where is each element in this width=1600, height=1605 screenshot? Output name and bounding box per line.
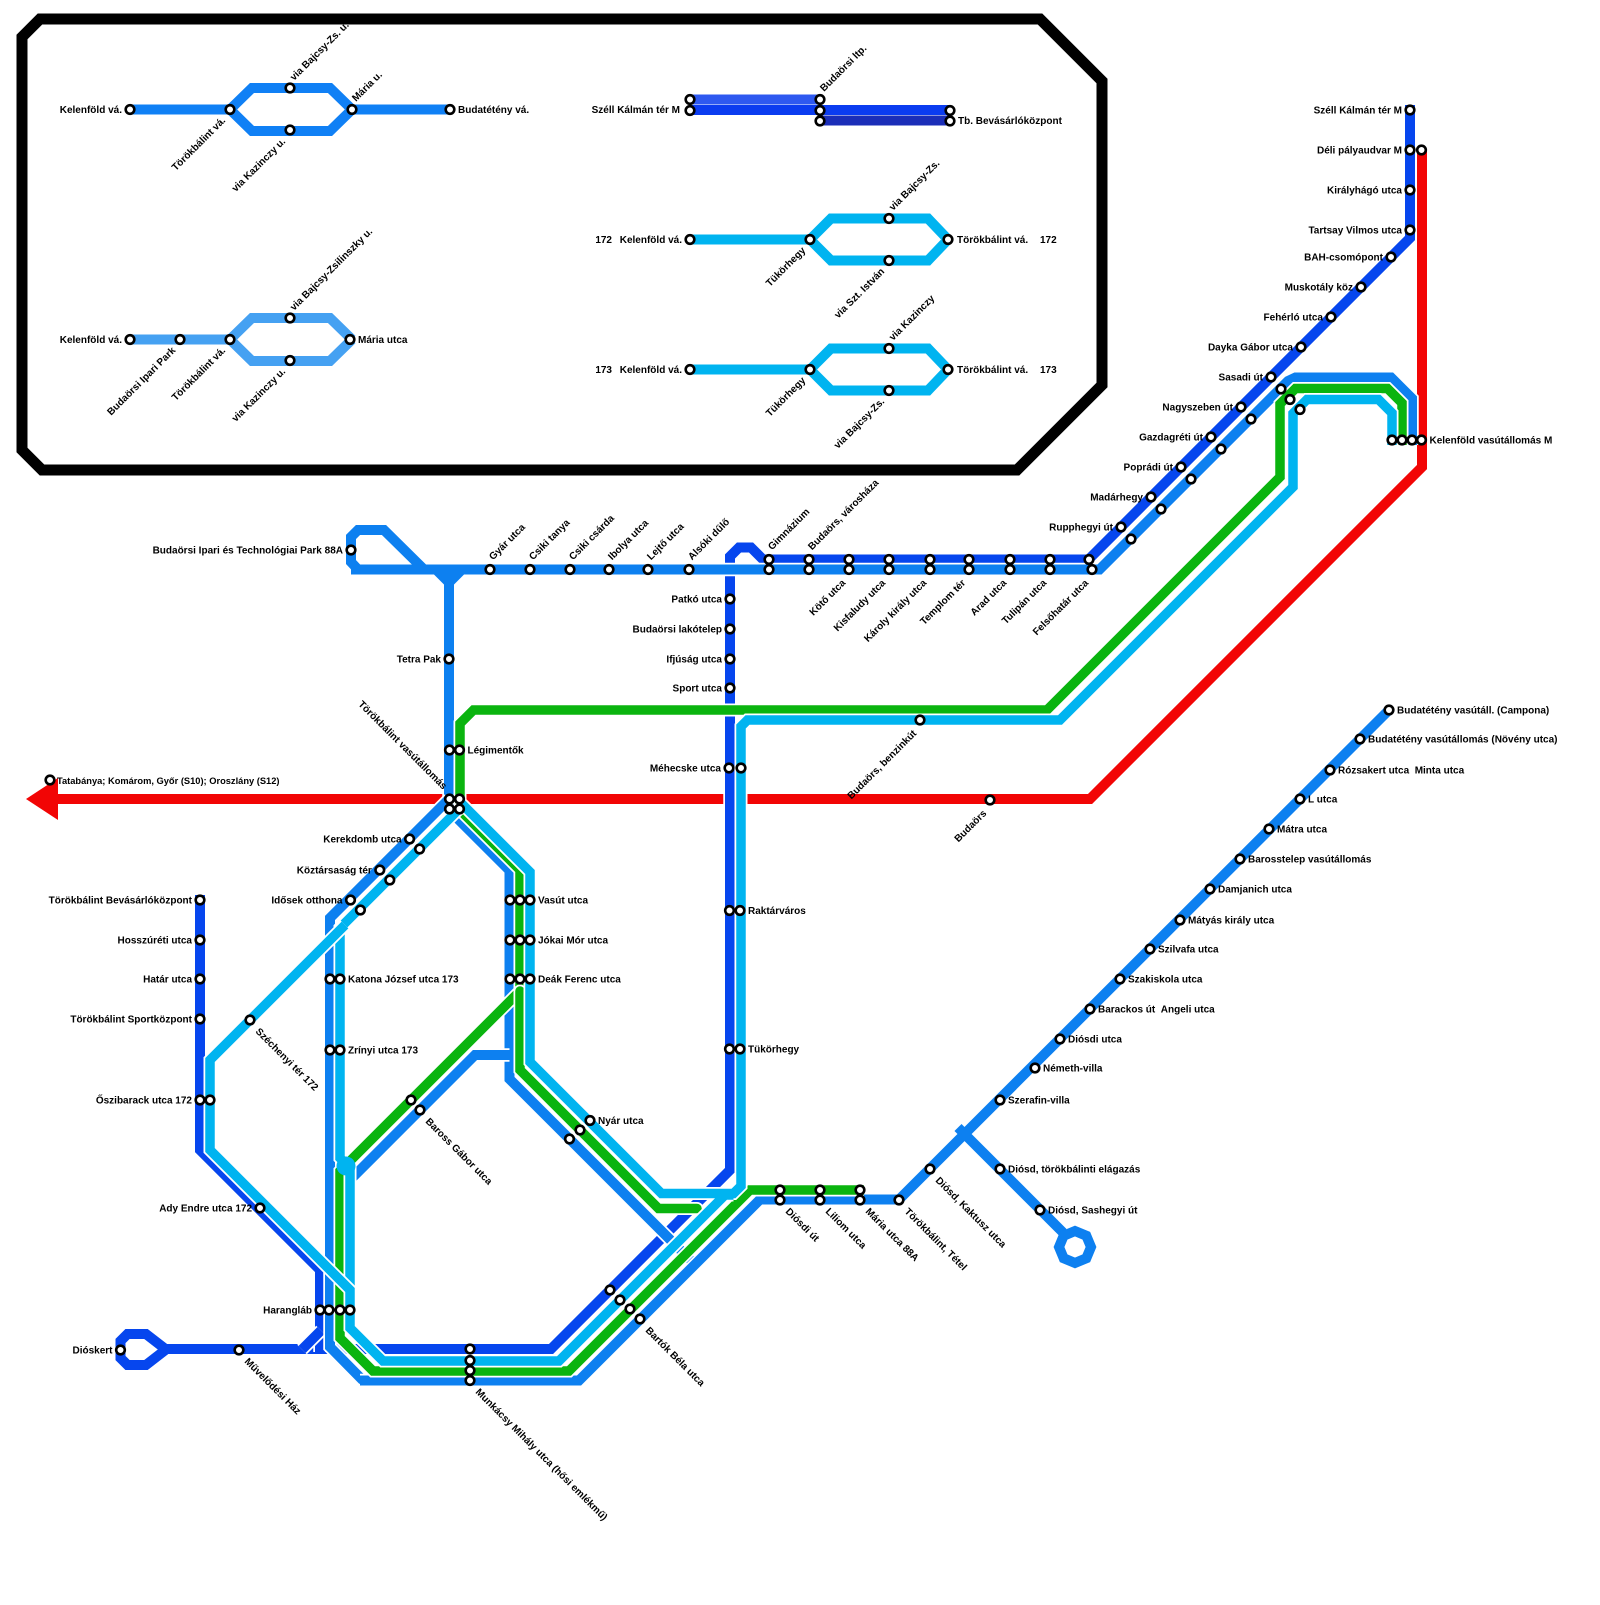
- station Munkácsy b: [466, 1356, 475, 1365]
- station Tb. Bevásárlóközpont b: [946, 117, 955, 126]
- station Ady Endre utca 172: [256, 1204, 265, 1213]
- dodger bottom corridor - Tétel - Diósd - Campona: [360, 710, 1389, 1381]
- svg-text:Budaörsi Ipari és Technológiai: Budaörsi Ipari és Technológiai Park 88A: [153, 546, 343, 557]
- station Arad utca a: [1006, 555, 1015, 564]
- royal fillet at Harangláb junction: [302, 1331, 321, 1350]
- svg-text:Zrínyi utca 173: Zrínyi utca 173: [348, 1046, 418, 1057]
- svg-text:Poprádi út: Poprádi út: [1124, 463, 1174, 474]
- station Baross Gábor utca a: [407, 1096, 416, 1105]
- station Budatétény vasútállomás (Növény utca): [1356, 735, 1365, 744]
- station Károly király utca a: [926, 555, 935, 564]
- svg-text:173: 173: [595, 365, 612, 376]
- station via Kazinczy u. r2: [286, 356, 295, 365]
- green Nyár utca branch: [520, 991, 697, 1209]
- station Törökbálint vasútállomás c: [445, 805, 454, 814]
- station Károly király utca b: [926, 565, 935, 574]
- station Köztársaság tér a: [376, 866, 385, 875]
- station via Bajcsy-Zs. 172: [885, 214, 894, 223]
- station via Kazinczy 173: [885, 344, 894, 353]
- station Mátyás király utca: [1176, 916, 1185, 925]
- svg-text:Törökbálint vá.: Törökbálint vá.: [957, 365, 1028, 376]
- svg-text:Királyhágó utca: Királyhágó utca: [1327, 186, 1402, 197]
- Budaörsi Ipari Park loop ring: [351, 530, 424, 570]
- svg-text:Barackos út Angeli utca: Barackos út Angeli utca: [1098, 1005, 1215, 1016]
- svg-text:Idősek otthona: Idősek otthona: [271, 896, 343, 907]
- svg-text:Diósdi utca: Diósdi utca: [1068, 1035, 1122, 1046]
- station Muskotály köz: [1357, 283, 1366, 292]
- svg-text:Damjanich utca: Damjanich utca: [1218, 885, 1292, 896]
- station Őszibarack utca 172 b: [206, 1096, 215, 1105]
- station Budaörsi Ipari Park r2: [176, 335, 185, 344]
- station Bartók Béla utca d: [636, 1315, 645, 1324]
- svg-text:Budaörsi lakótelep: Budaörsi lakótelep: [633, 625, 722, 636]
- svg-text:Légimentők: Légimentők: [468, 746, 525, 757]
- svg-text:Köztársaság tér: Köztársaság tér: [297, 866, 372, 877]
- station Sasadi út b: [1277, 385, 1286, 394]
- station Jókai Mór utca a: [506, 936, 515, 945]
- station Kisfaludy utca a: [885, 555, 894, 564]
- svg-text:Szilvafa utca: Szilvafa utca: [1158, 945, 1219, 956]
- station Budaörsi ltp. c: [816, 117, 825, 126]
- station Sasadi út a: [1267, 373, 1276, 382]
- station Királyhágó utca: [1406, 186, 1415, 195]
- station Őszibarack utca 172 a: [196, 1096, 205, 1105]
- station Légimentők b: [455, 746, 464, 755]
- station Bartók Béla utca c: [626, 1305, 635, 1314]
- cyan Széchenyi tér branch: [210, 925, 350, 1312]
- station Kötő utca a: [845, 555, 854, 564]
- station Budaörs városháza b: [805, 565, 814, 574]
- station Gazdagréti út a: [1207, 433, 1216, 442]
- svg-text:Muskotály köz: Muskotály köz: [1285, 283, 1353, 294]
- station Széll Kálmán tér M b: [686, 106, 695, 115]
- legend row1 route 40 loop: [130, 88, 450, 131]
- svg-text:Mária utca: Mária utca: [358, 335, 408, 346]
- svg-text:Tatabánya; Komárom, Győr (S10): Tatabánya; Komárom, Győr (S10); Oroszlán…: [57, 776, 280, 786]
- dodger Tetra Pak column upper: [444, 565, 454, 795]
- station Budaörsi Ipari és Technológiai Park 88A: [347, 546, 356, 555]
- station Harangláb d: [346, 1306, 355, 1315]
- station Diósdi út a: [776, 1186, 785, 1195]
- svg-text:Diósd, Sashegyi út: Diósd, Sashegyi út: [1048, 1206, 1138, 1217]
- station Kisfaludy utca b: [885, 565, 894, 574]
- station Köztársaság tér b: [386, 876, 395, 885]
- svg-text:Sport utca: Sport utca: [673, 684, 723, 695]
- station Liliom utca a: [816, 1186, 825, 1195]
- svg-text:Törökbálint vá.: Törökbálint vá.: [957, 235, 1028, 246]
- station Bartók Béla utca b: [616, 1296, 625, 1305]
- station Tatabánya irány: [46, 776, 55, 785]
- station Rupphegyi út b: [1127, 535, 1136, 544]
- station Nagyszeben út a: [1237, 403, 1246, 412]
- svg-text:Patkó utca: Patkó utca: [671, 595, 722, 606]
- station Hosszúréti utca: [196, 936, 205, 945]
- svg-text:Méhecske utca: Méhecske utca: [650, 764, 722, 775]
- svg-text:Fehérló utca: Fehérló utca: [1264, 313, 1324, 324]
- station Gazdagréti út b: [1217, 445, 1226, 454]
- station Tükörhegy b: [736, 1045, 745, 1054]
- svg-text:Mátyás király utca: Mátyás király utca: [1188, 916, 1275, 927]
- svg-text:Katona József utca 173: Katona József utca 173: [348, 975, 459, 986]
- svg-text:Budatétény vasútáll. (Campona): Budatétény vasútáll. (Campona): [1397, 706, 1549, 717]
- station Katona József utca 173 a: [326, 975, 335, 984]
- legend row3 middle bar: [690, 105, 950, 115]
- station Szakiskola utca: [1116, 975, 1125, 984]
- station Madárhegy a: [1147, 493, 1156, 502]
- dodger Diósd branch to Sashegyi út: [958, 1128, 1063, 1233]
- station Törökbálint vasútállomás b: [455, 795, 464, 804]
- svg-text:Tetra Pak: Tetra Pak: [397, 655, 442, 666]
- station Kötő utca b: [845, 565, 854, 574]
- svg-text:Kerekdomb utca: Kerekdomb utca: [323, 835, 402, 846]
- svg-text:Budatétény vasútállomás (Növén: Budatétény vasútállomás (Növény utca): [1368, 735, 1558, 746]
- station Törökbálint Sportközpont: [196, 1015, 205, 1024]
- station Idősek otthona a: [346, 896, 355, 905]
- station L utca: [1296, 795, 1305, 804]
- station Tetra Pak: [445, 655, 454, 664]
- station Budaörsi ltp. b: [816, 106, 825, 115]
- station Kerekdomb utca a: [405, 835, 414, 844]
- station Vasút utca c: [526, 896, 535, 905]
- station Zrínyi utca 173 b: [336, 1046, 345, 1055]
- station Kelenföld vá. r2: [126, 335, 135, 344]
- svg-text:Őszibarack utca 172: Őszibarack utca 172: [96, 1094, 193, 1107]
- station Mária utca 88A a: [856, 1186, 865, 1195]
- station Művelődési Ház: [235, 1346, 244, 1355]
- station Madárhegy b: [1157, 505, 1166, 514]
- station Templom tér a: [965, 555, 974, 564]
- station Törökbálint vá. 173: [944, 365, 953, 374]
- station Kelenföld vá. 173: [686, 365, 695, 374]
- station Dióskert: [116, 1346, 125, 1355]
- station via Bajcsy-Zsilinszky u. r2: [286, 314, 295, 323]
- station Tükörhegy 173: [806, 365, 815, 374]
- dodger main line Ipari Park - Budaörs - Sasadi út - Kelenföld: [351, 378, 1412, 570]
- station Templom tér b: [965, 565, 974, 574]
- station Kelenföld vasútállomás M 4: [1417, 436, 1426, 445]
- svg-text:Törökbálint Sportközpont: Törökbálint Sportközpont: [70, 1015, 192, 1026]
- station Tb. Bevásárlóközpont a: [946, 106, 955, 115]
- station Szerafin-villa: [996, 1096, 1005, 1105]
- T-junction fillets at Tetra Pak column: [437, 571, 461, 585]
- station Budaörs: [986, 796, 995, 805]
- station Szilvafa utca: [1146, 945, 1155, 954]
- station Határ utca: [196, 975, 205, 984]
- green main line Kelenföld - Légimentők - Baross Gábor - Harangláb - Diósdi út: [340, 389, 1402, 1372]
- station Alsóki dűlő: [685, 565, 694, 574]
- station Felsőhatár utca a: [1085, 555, 1094, 564]
- station Rózsakert utca: [1326, 766, 1335, 775]
- royal line Széll Kálmán - Budaörs - Tükörhegy - Harangláb corridor: [166, 105, 1410, 1349]
- svg-text:Nagyszeben út: Nagyszeben út: [1162, 403, 1233, 414]
- station Kelenföld vasútállomás M 2: [1398, 436, 1407, 445]
- station Gimnázium a: [765, 555, 774, 564]
- svg-text:172: 172: [595, 235, 612, 246]
- dodger Deák column - Nyár utca diagonal: [449, 793, 695, 1265]
- dodger west jog to Baross diagonal: [330, 1055, 510, 1200]
- station Vasút utca b: [516, 896, 525, 905]
- svg-text:Hosszúréti utca: Hosszúréti utca: [118, 936, 193, 947]
- svg-text:Szakiskola utca: Szakiskola utca: [1128, 975, 1203, 986]
- station BAH-csomópont: [1387, 253, 1396, 262]
- station Csiki tanya: [526, 565, 535, 574]
- svg-text:Diósd, törökbálinti elágazás: Diósd, törökbálinti elágazás: [1008, 1165, 1141, 1176]
- svg-text:Törökbálint Bevásárlóközpont: Törökbálint Bevásárlóközpont: [49, 896, 193, 907]
- station Patkó utca: [726, 595, 735, 604]
- station Fehérló utca: [1327, 313, 1336, 322]
- station Törökbálint vá. r2: [226, 335, 235, 344]
- station Budatétény vasútáll. (Campona): [1385, 706, 1394, 715]
- station Széll Kálmán tér M a: [686, 95, 695, 104]
- station Déli pályaudvar M rail: [1417, 146, 1426, 155]
- station Raktárváros b: [736, 906, 745, 915]
- station Lejtő utca: [644, 565, 653, 574]
- legend row3 lower bar: [820, 116, 950, 126]
- svg-text:Széll Kálmán tér M: Széll Kálmán tér M: [592, 105, 680, 116]
- svg-text:Déli pályaudvar M: Déli pályaudvar M: [1317, 146, 1402, 157]
- svg-text:Sasadi út: Sasadi út: [1219, 373, 1264, 384]
- red railway line S10/S12: [52, 150, 1422, 799]
- station via Bajcsy-Zs. u. r1: [286, 84, 295, 93]
- station Felsőhatár utca b: [1088, 565, 1097, 574]
- station Budatétény vá. r1: [446, 105, 455, 114]
- svg-text:Határ utca: Határ utca: [143, 975, 192, 986]
- svg-text:Dayka Gábor utca: Dayka Gábor utca: [1208, 343, 1293, 354]
- svg-text:173: 173: [1040, 365, 1057, 376]
- station Sport utca: [726, 684, 735, 693]
- station Diósd törökbálinti elágazás: [996, 1165, 1005, 1174]
- station Széchenyi tér 172: [246, 1016, 255, 1025]
- station Ibolya utca: [605, 565, 614, 574]
- station Kelenföld vasútállomás M 3: [1408, 436, 1417, 445]
- station Sasadi út d: [1296, 405, 1305, 414]
- station Mária u. r1: [348, 105, 357, 114]
- station Idősek otthona b: [356, 906, 365, 915]
- svg-text:BAH-csomópont: BAH-csomópont: [1304, 253, 1384, 264]
- svg-text:Deák Ferenc utca: Deák Ferenc utca: [538, 975, 621, 986]
- station Légimentők a: [445, 746, 454, 755]
- station Dayka Gábor utca: [1297, 343, 1306, 352]
- station Arad utca b: [1006, 565, 1015, 574]
- Sashegyi loop ring: [1059, 1231, 1091, 1263]
- station Budaörsi ltp. a: [816, 95, 825, 104]
- station Déli pályaudvar M: [1406, 146, 1415, 155]
- station Budaörs benzinkút: [916, 716, 925, 725]
- station Poprádi út a: [1177, 463, 1186, 472]
- station Törökbálint vasútállomás a: [445, 795, 454, 804]
- station Rupphegyi út a: [1117, 523, 1126, 532]
- svg-text:Kelenföld vá.: Kelenföld vá.: [620, 235, 682, 246]
- station Kelenföld vá. 172: [686, 235, 695, 244]
- svg-text:Dióskert: Dióskert: [72, 1346, 113, 1357]
- station Széll Kálmán tér M: [1406, 106, 1415, 115]
- svg-text:Tb. Bevásárlóközpont: Tb. Bevásárlóközpont: [958, 116, 1063, 127]
- station Nyár utca a: [565, 1135, 574, 1144]
- station Mária utca r2: [346, 335, 355, 344]
- station Raktárváros a: [725, 906, 734, 915]
- station Budaörs városháza a: [805, 555, 814, 564]
- station Gyár utca: [486, 565, 495, 574]
- svg-text:Szerafin-villa: Szerafin-villa: [1008, 1096, 1070, 1107]
- svg-text:Budatétény vá.: Budatétény vá.: [458, 105, 529, 116]
- station Poprádi út b: [1187, 475, 1196, 484]
- station Jókai Mór utca b: [516, 936, 525, 945]
- station Bartók Béla utca a: [606, 1286, 615, 1295]
- svg-text:Németh-villa: Németh-villa: [1043, 1064, 1103, 1075]
- station Munkácsy c: [466, 1366, 475, 1375]
- station Mária utca 88A b: [856, 1196, 865, 1205]
- station Törökbálint Tétel: [895, 1196, 904, 1205]
- station Kerekdomb utca b: [415, 845, 424, 854]
- svg-text:Gazdagréti út: Gazdagréti út: [1139, 433, 1204, 444]
- station Nyár utca b: [576, 1126, 585, 1135]
- station Deák Ferenc utca c: [526, 975, 535, 984]
- station Deák Ferenc utca a: [506, 975, 515, 984]
- station via Kazinczy u. r1: [286, 126, 295, 135]
- station Liliom utca b: [816, 1196, 825, 1205]
- svg-text:172: 172: [1040, 235, 1057, 246]
- station Kelenföld vasútállomás M 1: [1388, 436, 1397, 445]
- station Tükörhegy 172: [806, 235, 815, 244]
- Dióskert loop ring: [121, 1334, 167, 1365]
- svg-text:Ifjúság utca: Ifjúság utca: [666, 655, 722, 666]
- station Törökbálint vá. r1: [226, 105, 235, 114]
- station Vasút utca a: [506, 896, 515, 905]
- station Deák Ferenc utca b: [516, 975, 525, 984]
- station via Szt. István 172: [885, 256, 894, 265]
- station Törökbálint vasútállomás d: [455, 805, 464, 814]
- station Diósd Kaktusz utca: [926, 1165, 935, 1174]
- station Jókai Mór utca c: [526, 936, 535, 945]
- svg-text:Madárhegy: Madárhegy: [1090, 493, 1143, 504]
- station Törökbálint Bevásárlóközpont: [196, 896, 205, 905]
- legend box frame: [22, 19, 1102, 470]
- station Csiki csárda: [566, 565, 575, 574]
- red arrow head: [26, 778, 58, 820]
- station Zrínyi utca 173 a: [326, 1046, 335, 1055]
- cyan line 172 main loop: [340, 400, 1392, 1362]
- svg-text:L utca: L utca: [1308, 795, 1338, 806]
- legend row3 upper bar: [690, 93, 820, 107]
- station Gimnázium b: [765, 565, 774, 574]
- station Harangláb c: [336, 1306, 345, 1315]
- station Méhecske utca b: [737, 764, 746, 773]
- svg-text:Vasút utca: Vasút utca: [538, 896, 588, 907]
- station Diósdi út b: [776, 1196, 785, 1205]
- station Kelenföld vá. r1: [126, 105, 135, 114]
- station Tulipán utca b: [1046, 565, 1055, 574]
- royal branch Törökbálint Bevásárlóközpont - Ady Endre - Harangláb: [200, 895, 320, 1352]
- station Katona József utca 173 b: [336, 975, 345, 984]
- svg-text:Mátra utca: Mátra utca: [1277, 825, 1327, 836]
- station Diósd Sashegyi út: [1036, 1206, 1045, 1215]
- station Munkácsy d: [466, 1376, 475, 1385]
- station Budaörsi lakótelep: [726, 625, 735, 634]
- station via Bajcsy-Zs. 173: [885, 386, 894, 395]
- station Törökbálint vá. 172: [944, 235, 953, 244]
- station Baross Gábor utca b: [416, 1106, 425, 1115]
- station Németh-villa: [1031, 1064, 1040, 1073]
- legend 173 route loop: [690, 349, 948, 391]
- cyan junction dot: [337, 1157, 356, 1176]
- svg-text:Harangláb: Harangláb: [263, 1306, 312, 1317]
- station Mátra utca: [1265, 825, 1274, 834]
- station Munkácsy a: [466, 1345, 475, 1354]
- station Sasadi út c: [1286, 395, 1295, 404]
- station Méhecske utca a: [725, 764, 734, 773]
- station Harangláb b: [325, 1306, 334, 1315]
- svg-text:Rupphegyi út: Rupphegyi út: [1049, 523, 1114, 534]
- svg-text:Ady Endre utca 172: Ady Endre utca 172: [159, 1204, 252, 1215]
- svg-text:Jókai Mór utca: Jókai Mór utca: [538, 936, 608, 947]
- svg-text:Nyár utca: Nyár utca: [598, 1116, 644, 1127]
- svg-text:Tartsay Vilmos utca: Tartsay Vilmos utca: [1308, 226, 1402, 237]
- station Barackos út: [1086, 1005, 1095, 1014]
- svg-text:Kelenföld vá.: Kelenföld vá.: [60, 335, 122, 346]
- station Harangláb a: [316, 1306, 325, 1315]
- station Tartsay Vilmos utca: [1406, 226, 1415, 235]
- station Nagyszeben út b: [1247, 415, 1256, 424]
- legend 172 route loop: [690, 219, 948, 261]
- station Barosstelep vasútállomás: [1236, 855, 1245, 864]
- svg-text:Barosstelep vasútállomás: Barosstelep vasútállomás: [1248, 855, 1372, 866]
- svg-text:Kelenföld vá.: Kelenföld vá.: [60, 105, 122, 116]
- station Nyár utca c: [586, 1116, 595, 1125]
- station Diósdi utca: [1056, 1035, 1065, 1044]
- svg-text:Tükörhegy: Tükörhegy: [748, 1045, 800, 1056]
- svg-text:Raktárváros: Raktárváros: [748, 906, 806, 917]
- station Tulipán utca a: [1046, 555, 1055, 564]
- svg-text:Kelenföld vasútállomás M: Kelenföld vasútállomás M: [1430, 436, 1553, 447]
- station Ifjúság utca: [726, 655, 735, 664]
- legend row2 route 240 loop: [130, 318, 352, 361]
- svg-text:Kelenföld vá.: Kelenföld vá.: [620, 365, 682, 376]
- station Damjanich utca: [1206, 885, 1215, 894]
- svg-text:Rózsakert utca Minta utca: Rózsakert utca Minta utca: [1338, 766, 1465, 777]
- station Tükörhegy a: [725, 1045, 734, 1054]
- svg-text:Széll Kálmán tér M: Széll Kálmán tér M: [1314, 106, 1402, 117]
- dodger SW branch Kerekdomb - Katona column - Harangláb: [330, 799, 449, 1381]
